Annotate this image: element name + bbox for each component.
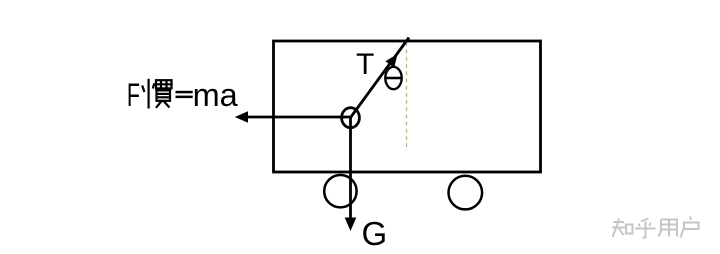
svg-text:F: F (127, 76, 140, 113)
svg-text:T: T (356, 48, 374, 81)
svg-text:ma: ma (193, 77, 239, 113)
svg-text:G: G (362, 215, 388, 252)
